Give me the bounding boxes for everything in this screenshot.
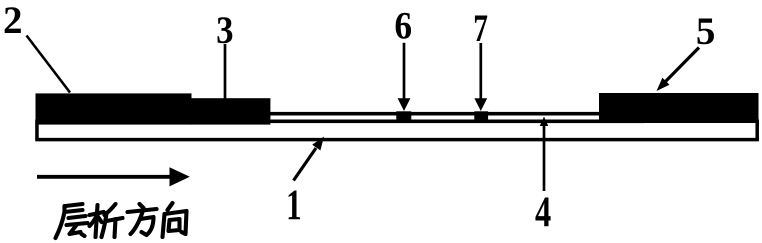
svg-text:5: 5	[696, 10, 716, 53]
svg-text:1: 1	[286, 182, 302, 229]
svg-text:4: 4	[535, 189, 551, 236]
svg-text:3: 3	[216, 9, 233, 52]
svg-text:7: 7	[473, 7, 488, 50]
svg-text:2: 2	[3, 0, 23, 42]
svg-text:6: 6	[394, 5, 412, 48]
